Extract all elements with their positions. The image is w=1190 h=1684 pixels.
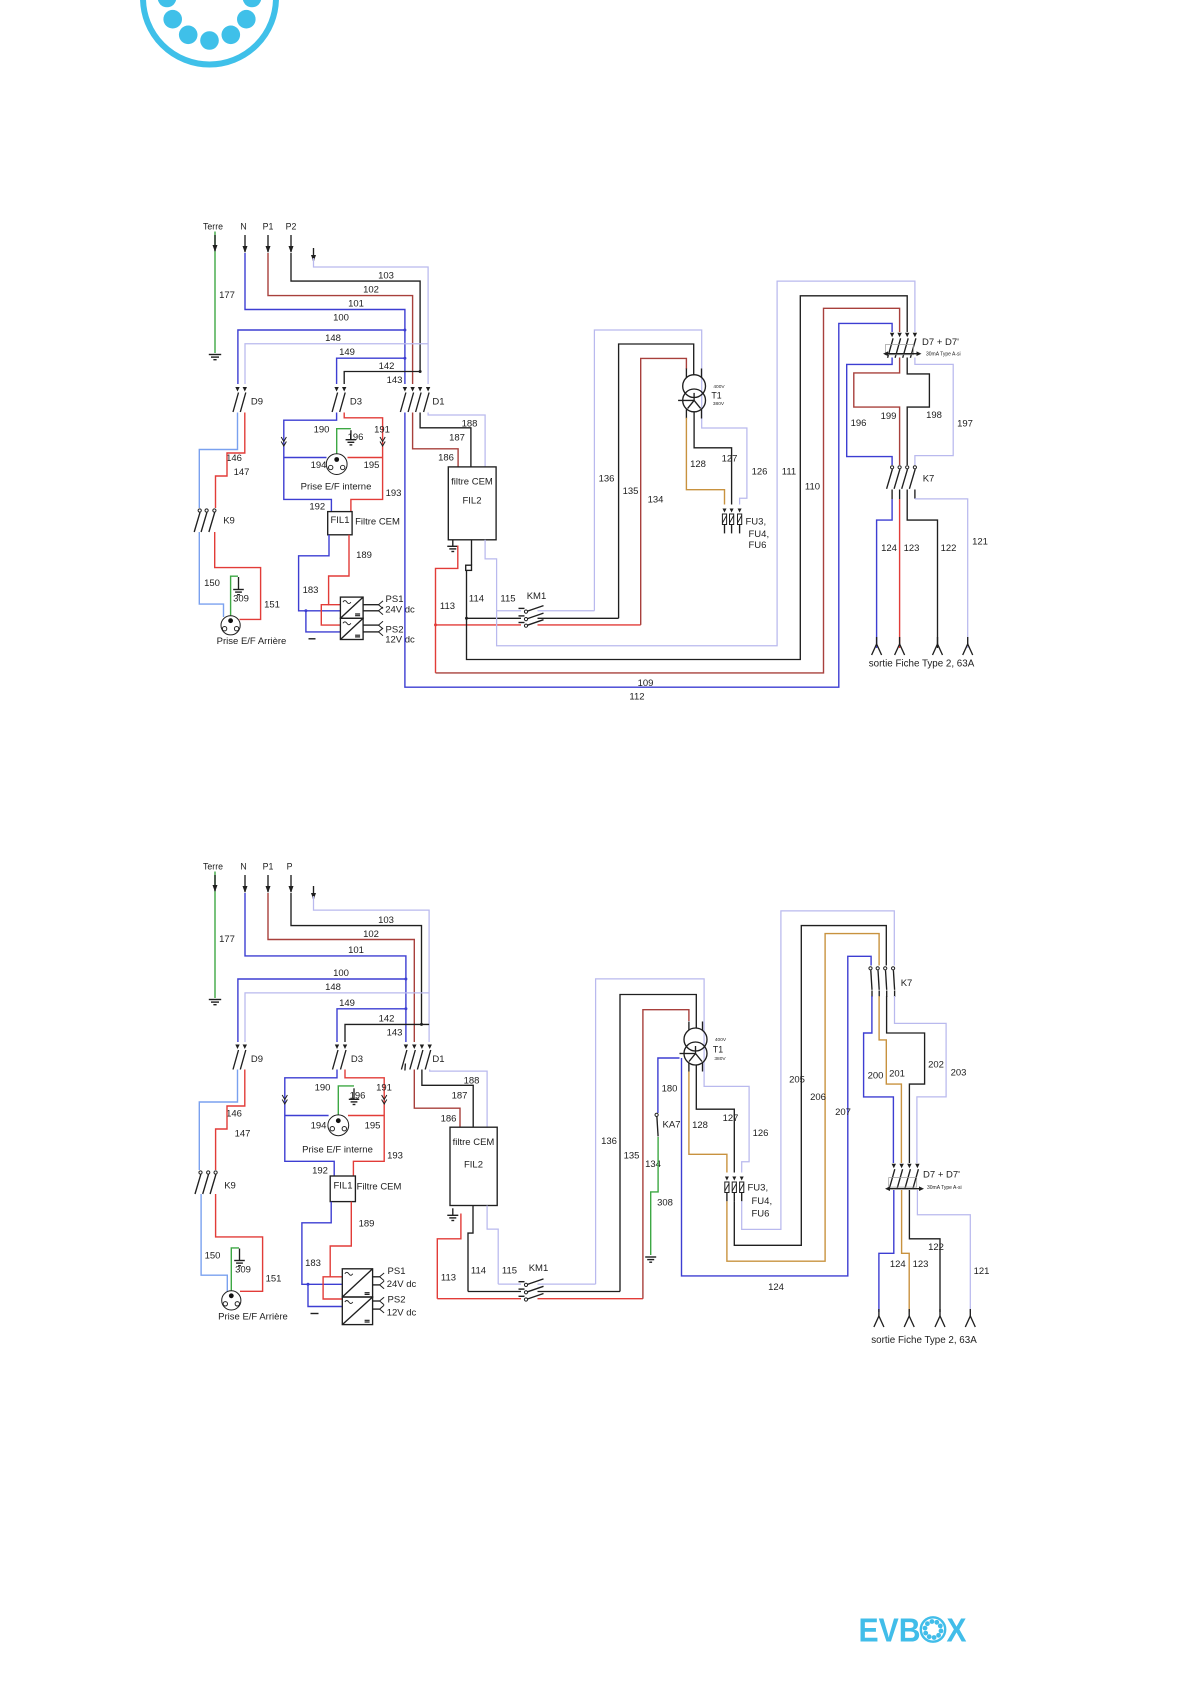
wire 113 red FIL2 to KM1 and 134 to T1 (436, 546, 458, 673)
junction 183 PS2 branch (bottom) (307, 1283, 310, 1286)
svg-text:143: 143 (387, 1028, 403, 1039)
wire lavender bottom run to D7 pole4 (497, 281, 915, 646)
arrow terminal Terre (214, 235, 216, 251)
wire 194 blue to socket left (284, 457, 327, 459)
wire 309 green Prise Arriere earth (bottom) (231, 1248, 239, 1292)
svg-text:Terre: Terre (203, 222, 223, 232)
svg-text:FU3,: FU3, (748, 1182, 769, 1193)
svg-text:147: 147 (234, 467, 250, 478)
power supply PS2 (340, 618, 363, 639)
svg-text:113: 113 (441, 1272, 456, 1283)
wire 146 light blue D9 to K9 (bottom) (199, 1070, 237, 1171)
svg-text:Filtre CEM: Filtre CEM (355, 517, 400, 528)
wire lavender feed to D1 pole4 (bottom) (314, 896, 430, 1042)
wire 196 green socket earth (337, 429, 351, 454)
ground 309 (bottom diagram) (239, 1249, 241, 1261)
ground Terre (bottom diagram) (209, 999, 221, 1001)
svg-text:N: N (240, 862, 246, 872)
socket Prise E/F Arriere (bottom diagram) (222, 1291, 241, 1310)
svg-text:197: 197 (957, 419, 973, 430)
T1 bottom stubs (bottom) (688, 1063, 690, 1072)
wire 147 red D9 to K9 (216, 413, 245, 509)
power supply PS1 (bottom) (342, 1269, 372, 1297)
wire 195 red to socket right (348, 457, 383, 459)
svg-text:123: 123 (904, 543, 920, 554)
wire 196 blue D7 to K7 (847, 358, 892, 466)
arrow 191 double chevron (380, 437, 385, 446)
svg-text:D3: D3 (351, 1054, 363, 1065)
wire lavender feed to D1 pole4 (314, 258, 429, 384)
wire 207 lavender FU6 to K7 (bottom) (742, 911, 895, 1230)
svg-text:D7 + D7': D7 + D7' (922, 337, 959, 348)
svg-text:P2: P2 (286, 222, 297, 232)
svg-text:FU4,: FU4, (749, 529, 770, 540)
svg-text:122: 122 (941, 543, 957, 554)
wire 115 KM1 row lavender (bottom) (498, 1283, 521, 1285)
wire 189 red FIL1 to PS (bottom) (330, 1202, 351, 1277)
wire 134 red KM1 to T1 (bottom) (643, 1010, 689, 1299)
svg-text:FIL2: FIL2 (464, 1159, 483, 1170)
wire 124 blue D7 to sortie (bottom) (879, 1190, 894, 1312)
svg-text:187: 187 (452, 1090, 468, 1101)
wire 308 green KA7 to ground (bottom) (651, 1137, 658, 1255)
wire 109 red bottom run to D7 pole2 (436, 308, 900, 673)
D7 test bar (bottom) (890, 1188, 919, 1190)
svg-text:308: 308 (657, 1197, 673, 1208)
svg-text:150: 150 (204, 578, 220, 589)
wire 203 lavender K7 to D7 (bottom) (895, 996, 947, 1163)
wire 114 black FIL2 to KM1 (bottom) (468, 1206, 473, 1292)
filter FIL2 box (bottom) (450, 1127, 497, 1205)
ground 308 (bottom diagram) (645, 1256, 656, 1258)
wire 189 red FIL1 to PS (329, 535, 349, 605)
svg-text:Prise E/F Arrière: Prise E/F Arrière (218, 1312, 288, 1323)
wire 147 red D9 to K9 (bottom) (216, 1070, 245, 1171)
svg-text:126: 126 (753, 1128, 769, 1139)
wire 194 blue to socket left (bottom) (285, 1115, 329, 1117)
svg-text:102: 102 (363, 929, 379, 940)
svg-text:FIL1: FIL1 (330, 515, 349, 526)
svg-text:380V: 380V (713, 401, 725, 407)
svg-text:121: 121 (972, 537, 988, 548)
svg-text:187: 187 (449, 433, 465, 444)
socket Prise E/F interne (top diagram) (326, 454, 347, 475)
breaker D3 (334, 387, 338, 392)
svg-text:T1: T1 (713, 1045, 723, 1055)
svg-text:194: 194 (311, 1120, 327, 1131)
wire 199 red D7 to K7 (854, 358, 900, 466)
svg-text:112: 112 (629, 692, 644, 703)
svg-text:192: 192 (309, 501, 325, 512)
svg-text:PS2: PS2 (388, 1294, 406, 1305)
wire 149 blue branch to D3 (337, 358, 405, 384)
wire 149 blue branch to D3 (bottom) (337, 1009, 406, 1042)
minus mark PS (bottom) (311, 1313, 319, 1315)
contactor K9 (198, 509, 201, 512)
svg-text:115: 115 (502, 1265, 517, 1276)
svg-text:190: 190 (314, 425, 330, 436)
wire 187 black D1 to FIL2 (bottom) (422, 1070, 473, 1128)
svg-text:186: 186 (438, 453, 454, 464)
svg-text:filtre CEM: filtre CEM (453, 1137, 495, 1148)
svg-text:FIL2: FIL2 (462, 495, 481, 506)
svg-text:FU6: FU6 (752, 1208, 770, 1219)
svg-text:205: 205 (789, 1074, 805, 1085)
wire 197 lavender D7 to K7 (915, 358, 953, 466)
arrow terminal P2 (290, 235, 292, 252)
svg-text:115: 115 (500, 594, 515, 605)
wire red branch to PS2 (bottom) (323, 1277, 342, 1299)
svg-text:Prise E/F Arrière: Prise E/F Arrière (217, 636, 287, 647)
svg-text:103: 103 (378, 915, 394, 926)
wire 102 dark red from P1 to D1 (268, 253, 413, 384)
svg-text:30mA Type A-si: 30mA Type A-si (926, 351, 961, 357)
svg-text:24V dc: 24V dc (387, 1279, 417, 1290)
arrow stub lavender feed (bottom diagram) (313, 886, 315, 899)
power supply PS1 (340, 597, 363, 618)
wire 190 blue D3 to Prise interne (bottom) (285, 1070, 337, 1116)
svg-text:149: 149 (339, 347, 355, 358)
svg-text:177: 177 (219, 290, 235, 301)
svg-text:136: 136 (599, 473, 615, 484)
svg-text:128: 128 (692, 1120, 708, 1131)
svg-text:D1: D1 (432, 1054, 444, 1065)
wire 180 blue T1 to KA7 (bottom) (658, 1058, 680, 1113)
svg-text:101: 101 (348, 945, 364, 956)
wire 142 black branch to D3 (bottom) (345, 1024, 429, 1042)
T1 top stubs (bottom) (688, 1022, 690, 1031)
svg-text:186: 186 (441, 1114, 457, 1125)
svg-text:Filtre CEM: Filtre CEM (357, 1182, 402, 1193)
svg-text:K7: K7 (923, 474, 935, 485)
breaker D3 (bottom) (335, 1045, 339, 1050)
wire 124 blue T1 junction to K7 (bottom) (682, 956, 872, 1276)
svg-text:400V: 400V (715, 1037, 727, 1043)
wire 188 lavender D1 to FIL2 (bottom) (430, 1070, 487, 1128)
svg-text:151: 151 (264, 600, 280, 611)
filter FIL2 box (448, 467, 496, 540)
wire 205 black FU4 to K7 (bottom) (734, 926, 886, 1246)
arrow terminal P (bottom) (290, 875, 292, 892)
svg-text:K7: K7 (901, 978, 913, 989)
svg-text:380V: 380V (714, 1056, 726, 1062)
svg-text:183: 183 (305, 1258, 321, 1269)
svg-text:142: 142 (379, 1014, 395, 1025)
wire 135 black KM1 to T1 (619, 344, 694, 618)
svg-text:D1: D1 (432, 396, 444, 407)
svg-text:Prise E/F interne: Prise E/F interne (302, 1144, 373, 1155)
svg-text:189: 189 (359, 1218, 375, 1229)
wire 206 orange FU3 to K7 (bottom) (727, 934, 879, 1262)
svg-text:124: 124 (768, 1282, 784, 1293)
svg-text:146: 146 (226, 453, 242, 464)
wire 151 red K9 to Prise Arriere (bottom) (216, 1194, 263, 1291)
svg-text:Prise E/F interne: Prise E/F interne (301, 481, 372, 492)
contactor KM1 (top diagram) (519, 607, 525, 609)
arrow terminal N (244, 235, 246, 252)
ground 309 (top diagram) (238, 577, 240, 590)
svg-text:103: 103 (378, 271, 394, 282)
svg-text:196: 196 (350, 1091, 366, 1102)
wire 113 KM1 row red (436, 624, 522, 626)
svg-text:191: 191 (374, 425, 390, 436)
arrow terminal Terre (bottom) (214, 875, 216, 891)
svg-text:FU4,: FU4, (752, 1196, 773, 1207)
T1 top stubs (685, 369, 687, 378)
svg-text:183: 183 (303, 585, 319, 596)
svg-text:FIL1: FIL1 (333, 1180, 352, 1191)
arrow terminal N (bottom) (244, 875, 246, 892)
svg-text:122: 122 (928, 1242, 944, 1253)
wire 115 KM1 row lavender (497, 610, 521, 612)
svg-text:124: 124 (881, 543, 897, 554)
junction 101/149 (403, 357, 406, 360)
fuse group FU3 FU4 FU6 (top diagram) (723, 509, 727, 513)
wire 121 lavender D7 to sortie (bottom) (917, 1190, 970, 1312)
arrow 190 double chevron (281, 437, 286, 446)
svg-text:202: 202 (928, 1059, 944, 1070)
svg-text:309: 309 (235, 1265, 251, 1276)
transformer T1 (bottom diagram) (684, 1028, 707, 1051)
svg-text:121: 121 (974, 1266, 990, 1277)
svg-text:196: 196 (348, 432, 364, 443)
svg-text:203: 203 (951, 1067, 967, 1078)
D7 test bar (888, 353, 917, 355)
svg-text:150: 150 (205, 1250, 221, 1261)
contactor K9 (bottom) (199, 1171, 202, 1174)
wire blue branch to PS2 (306, 611, 340, 632)
svg-text:114: 114 (469, 594, 484, 605)
EVBOX wordmark logo (bottom-right) (859, 1612, 967, 1649)
contactor K7 (bottom diagram) (869, 967, 872, 970)
wire 115 lavender FIL2 to KM1 and 136 loop (485, 540, 497, 611)
svg-text:128: 128 (690, 459, 706, 470)
svg-text:K9: K9 (223, 515, 235, 526)
minus mark PS (309, 638, 316, 640)
svg-text:101: 101 (348, 299, 364, 310)
relay contact KA7 (655, 1113, 658, 1116)
svg-text:188: 188 (462, 418, 478, 429)
wire 114 KM1 row black (bottom) (468, 1291, 521, 1293)
svg-text:134: 134 (648, 494, 664, 505)
svg-text:D9: D9 (251, 396, 263, 407)
wire red branch to PS2 (321, 605, 340, 625)
transformer T1 (top diagram) (683, 375, 706, 398)
svg-text:KA7: KA7 (663, 1120, 681, 1131)
junction 101/100 (403, 329, 406, 332)
PS1 outputs 24Vdc (bottom) (373, 1276, 380, 1278)
svg-text:P1: P1 (263, 222, 274, 232)
svg-text:207: 207 (835, 1107, 851, 1118)
svg-text:136: 136 (601, 1136, 617, 1147)
wire 128 orange T1 to FU3 (bottom) (689, 1072, 727, 1173)
svg-text:sortie Fiche Type 2, 63A: sortie Fiche Type 2, 63A (869, 658, 975, 669)
wire 134 red KM1 to T1 (641, 358, 687, 625)
breaker D9 (bottom) (235, 1045, 239, 1050)
svg-text:FU6: FU6 (749, 540, 767, 551)
svg-text:199: 199 (881, 411, 897, 422)
svg-text:X: X (947, 1612, 967, 1649)
svg-text:188: 188 (464, 1076, 480, 1087)
arrow stub lavender feed (top diagram) (313, 248, 315, 261)
wire 200 blue K7 to D7 (bottom) (864, 996, 894, 1163)
arrow terminal P1 (267, 235, 269, 252)
wire 191 red D3 to Prise interne (bottom) (345, 1070, 384, 1116)
ground 196 (bottom diagram) (353, 1088, 355, 1099)
wire 135 black KM1 to T1 (bottom) (620, 995, 696, 1292)
socket Prise E/F interne (bottom diagram) (328, 1115, 349, 1136)
wire 177 Terre green (214, 232, 216, 354)
filter FIL1 box (bottom) (330, 1176, 355, 1202)
svg-text:201: 201 (889, 1068, 905, 1079)
breaker D9 (235, 387, 239, 392)
svg-text:200: 200 (868, 1070, 884, 1081)
svg-text:12V dc: 12V dc (387, 1307, 417, 1318)
svg-text:309: 309 (233, 594, 249, 605)
junction 142/103 (bottom) (420, 1023, 423, 1026)
svg-text:109: 109 (638, 678, 654, 689)
svg-text:190: 190 (315, 1083, 331, 1094)
svg-text:KM1: KM1 (527, 591, 547, 602)
svg-text:FU3,: FU3, (746, 517, 767, 528)
wire 128 orange T1 to FU3 (686, 418, 724, 505)
socket Prise E/F Arriere (top diagram) (221, 616, 240, 635)
wire 150 light blue K9 to Prise Arriere (199, 532, 223, 617)
svg-text:P1: P1 (263, 862, 274, 872)
PS2 outputs 12Vdc (363, 624, 378, 626)
svg-text:102: 102 (363, 285, 379, 296)
svg-text:135: 135 (623, 486, 639, 497)
wire 123 orange D7 to sortie (bottom) (902, 1190, 910, 1312)
svg-text:195: 195 (364, 460, 380, 471)
wire 198 black D7 to K7 (907, 358, 929, 466)
svg-text:177: 177 (219, 934, 235, 945)
wire 103 black from P2 to D1 (291, 253, 420, 372)
PS1 outputs 24Vdc (363, 604, 378, 606)
wire 114 black FIL2 to KM1 and 135 to T1 (471, 540, 473, 565)
svg-text:142: 142 (379, 361, 395, 372)
wire 192 blue socket to FIL1 (bottom) (285, 1116, 334, 1177)
wire black bottom run to D7 pole3 (467, 296, 908, 660)
wire 146 light blue D9 to K9 (199, 413, 237, 509)
svg-text:K9: K9 (224, 1180, 236, 1191)
wire 101 blue from N to D1 (245, 253, 405, 384)
wire 192 blue socket to FIL1 (284, 458, 332, 512)
svg-text:T1: T1 (711, 390, 721, 400)
wire 183 blue FIL1 to PS (299, 535, 341, 611)
svg-text:180: 180 (662, 1084, 678, 1095)
wire 136 lavender KM1 to T1 and FU (594, 330, 747, 611)
wire 114 KM1 row black (467, 617, 522, 619)
svg-text:114: 114 (471, 1265, 486, 1276)
wire 102 dark red (bottom) (268, 893, 414, 1042)
PS2 outputs 12Vdc (bottom) (373, 1300, 380, 1302)
svg-text:193: 193 (387, 1151, 403, 1162)
wire 183 blue FIL1 to PS (bottom) (302, 1202, 342, 1285)
wire 191 red D3 to Prise interne (344, 413, 382, 458)
junction 114 KM1 (465, 617, 468, 620)
svg-text:127: 127 (723, 1113, 739, 1124)
RCD D7+D7' (top diagram) (890, 333, 894, 338)
wire 187 black D1 to FIL2 (420, 413, 471, 467)
contactor KM1 (bottom diagram) (519, 1281, 525, 1283)
RCD D7+D7' (bottom diagram) (892, 1164, 896, 1169)
wire 122 black K7 to sortie (907, 499, 937, 648)
svg-text:filtre CEM: filtre CEM (451, 476, 493, 487)
wire 127 black T1 to FU4 (bottom) (696, 1065, 734, 1173)
svg-text:110: 110 (805, 482, 820, 493)
wire 186 dark red D1 to FIL2 (bottom) (414, 1070, 460, 1128)
wire 148 lavender branch to D9 (bottom) (245, 993, 429, 1042)
wire 195 red to socket right (bottom) (348, 1115, 384, 1117)
wire 113 red FIL2 to KM1 (bottom) (437, 1214, 461, 1299)
wire 150 light blue K9 to Prise Arriere (bottom) (201, 1194, 227, 1292)
svg-text:N: N (240, 222, 246, 232)
svg-text:148: 148 (325, 333, 341, 344)
svg-text:D7 + D7': D7 + D7' (923, 1170, 960, 1181)
power supply PS2 (bottom) (342, 1297, 372, 1325)
svg-text:198: 198 (926, 410, 942, 421)
ground FIL2 (452, 540, 454, 547)
svg-text:195: 195 (365, 1120, 381, 1131)
svg-text:127: 127 (722, 454, 738, 465)
svg-text:100: 100 (333, 968, 349, 979)
svg-text:151: 151 (266, 1274, 282, 1285)
svg-text:192: 192 (312, 1166, 328, 1177)
svg-text:143: 143 (387, 375, 403, 386)
svg-text:124: 124 (890, 1259, 906, 1270)
svg-text:123: 123 (913, 1259, 929, 1270)
wire 115 lavender FIL2 to KM1 (bottom) (487, 1206, 498, 1285)
D1 pole1 open stub (bottom) (404, 1064, 407, 1071)
wire 201 orange K7 to D7 (bottom) (879, 996, 901, 1163)
wire 123 red K7 to sortie (899, 499, 901, 648)
wire 202 black K7 to D7 (bottom) (887, 996, 925, 1163)
arrow terminal P1 (bottom) (267, 875, 269, 892)
svg-text:24V dc: 24V dc (385, 605, 415, 616)
svg-text:EVB: EVB (859, 1612, 921, 1649)
wire blue branch to PS2 (bottom) (308, 1284, 342, 1306)
svg-text:D3: D3 (350, 396, 362, 407)
svg-text:126: 126 (752, 467, 768, 478)
wire 127 black T1 to FU4 (694, 412, 732, 505)
junction 113 KM1 (434, 623, 437, 626)
wire 193 red socket to FIL1 (bottom) (353, 1116, 384, 1177)
contactor K7 (top diagram) (891, 466, 894, 469)
svg-text:148: 148 (325, 982, 341, 993)
ground FIL2 (bottom) (452, 1208, 454, 1215)
svg-text:12V dc: 12V dc (385, 635, 415, 646)
svg-text:191: 191 (376, 1083, 392, 1094)
filter FIL1 box (328, 512, 352, 535)
junction 101/100 (bottom) (404, 978, 407, 981)
EVBox circular logo (top-left, clipped at page top) (143, 0, 276, 65)
wire 122 black D7 to sortie (bottom) (909, 1190, 940, 1312)
svg-text:30mA Type A-si: 30mA Type A-si (927, 1185, 962, 1191)
wire 188 lavender D1 to FIL2 (428, 413, 485, 467)
wire 142 black branch to D3 (344, 372, 420, 385)
sortie terminals (bottom diagram) (874, 1316, 884, 1327)
wire 309 green Prise Arriere earth (231, 576, 238, 617)
svg-text:113: 113 (440, 601, 455, 612)
junction 142/103 (419, 370, 422, 373)
svg-text:D9: D9 (251, 1054, 263, 1065)
wire 101 blue (bottom) (245, 893, 406, 1042)
sortie terminals (top diagram) (872, 644, 882, 655)
svg-text:PS1: PS1 (386, 594, 404, 605)
fuse group FU3 FU4 FU6 (bottom diagram) (725, 1177, 729, 1181)
wire 113 KM1 row red (bottom) (437, 1298, 521, 1300)
